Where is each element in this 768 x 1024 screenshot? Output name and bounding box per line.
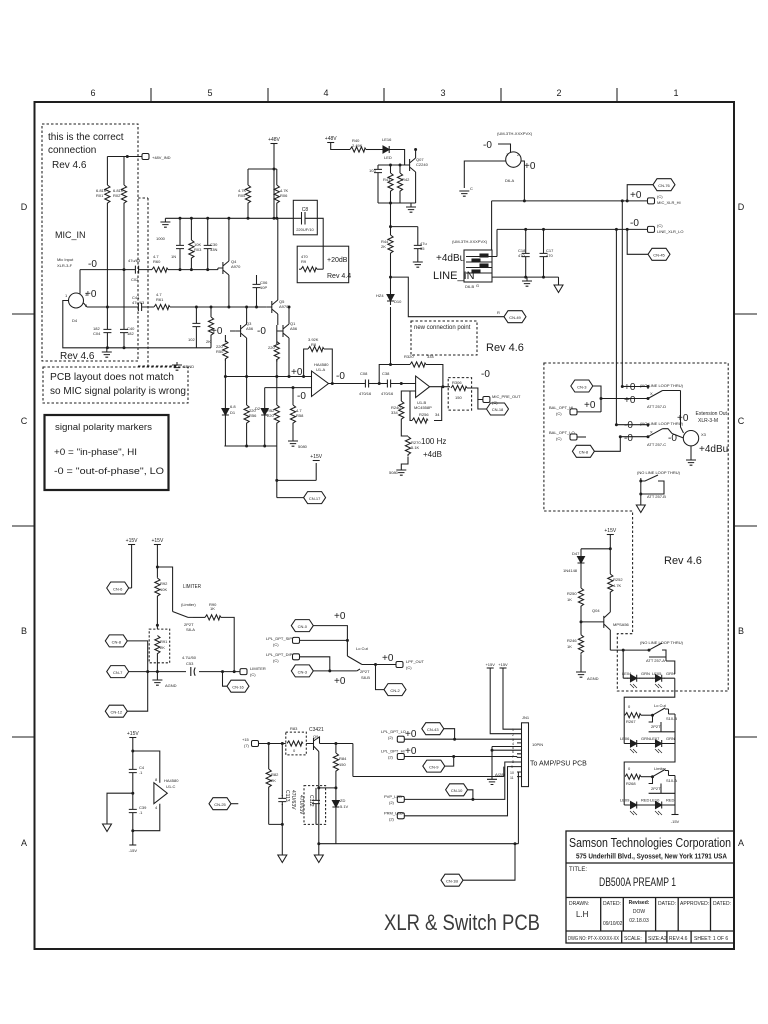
svg-text:AGND: AGND [587,676,599,681]
switch ATT 257-C [648,425,672,437]
svg-text:D6-B: D6-B [465,284,474,289]
svg-text:11: 11 [510,776,514,780]
row2 to row3 step [624,744,675,777]
resistor R252 [609,549,611,574]
svg-text:signal polarity markers: signal polarity markers [55,422,153,432]
svg-text:34: 34 [435,412,440,417]
svg-text:CN-1B: CN-1B [446,879,458,884]
svg-text:+4dBu: +4dBu [436,253,465,264]
svg-text:D10: D10 [394,299,402,304]
row1 to row2 step [624,678,675,715]
svg-text:1K: 1K [567,597,572,602]
capacitor C04 [103,326,111,336]
net tag XA-25 [209,798,231,810]
capacitor C02 [132,266,142,274]
svg-text:GRN: GRN [666,736,675,741]
connector LIM_OUT [396,662,403,668]
svg-text:X3: X3 [701,432,707,437]
svg-text:R41: R41 [383,177,391,182]
svg-text:CN-12: CN-12 [111,710,123,715]
svg-text:LPL_DPT_DIP: LPL_DPT_DIP [266,652,293,657]
svg-text:+0: +0 [334,611,346,622]
wire R02 column [123,157,125,348]
svg-text:R83: R83 [290,726,298,731]
output wire [362,664,396,666]
svg-text:-0: -0 [624,433,633,444]
svg-text:DWG NO: PT-X-XXXXX-XX: DWG NO: PT-X-XXXXX-XX [568,936,620,942]
input wire [259,743,312,745]
net tag XU-0 [446,784,468,796]
svg-text:182: 182 [127,331,134,336]
svg-text:+15V: +15V [485,662,495,667]
wire [372,383,384,385]
svg-text:A(28): A(28) [495,772,505,777]
svg-text:C2240: C2240 [416,162,429,167]
wire mic pin1 ground loop [63,301,211,348]
input rail to opamp + [224,376,311,378]
resistor R84 [335,744,337,788]
svg-text:09/10/02: 09/10/02 [603,921,623,927]
svg-text:CN-49: CN-49 [509,315,521,320]
wire +0 line [87,306,267,308]
capacitor C08 [362,380,372,388]
svg-text:CN-10: CN-10 [451,788,463,793]
svg-text:(C): (C) [273,658,279,663]
svg-text:CN-17: CN-17 [309,496,321,501]
svg-text:SHEET: 1 OF 6: SHEET: 1 OF 6 [694,936,728,942]
svg-text:6.8: 6.8 [230,404,236,409]
svg-text:2: 2 [556,88,561,98]
wire C8 to R9 [312,218,323,269]
svg-text:X: X [650,391,653,396]
svg-text:2P2T: 2P2T [651,786,661,791]
svg-text:R267: R267 [626,719,636,724]
svg-text:+0: +0 [624,395,636,406]
svg-text:LE10: LE10 [650,798,660,803]
svg-text:A56: A56 [246,326,254,331]
svg-text:-0: -0 [297,391,306,402]
svg-text:Rev 4.6: Rev 4.6 [664,555,702,567]
svg-text:R05: R05 [238,193,246,198]
svg-text:C112: C112 [308,795,314,807]
svg-text:334: 334 [427,354,434,359]
svg-text:10K: 10K [160,587,167,592]
inverting input chain [401,391,415,470]
svg-text:LINE_XLR_LO: LINE_XLR_LO [657,229,683,234]
svg-text:Q04: Q04 [592,608,600,613]
rail2 -0 LINE_XLR_LO [497,228,648,230]
diode LE16 LED [380,146,392,153]
svg-text:MC4558P: MC4558P [414,405,432,410]
svg-text:3: 3 [440,88,445,98]
svg-text:2K: 2K [206,339,211,344]
svg-text:XLR & Switch PCB: XLR & Switch PCB [384,910,540,935]
svg-text:S8-A: S8-A [186,627,195,632]
svg-text:-0: -0 [257,326,266,337]
svg-text:C38: C38 [382,371,390,376]
right tick D/C [734,313,757,315]
jack ground rail [492,276,559,278]
svg-text:CN-18: CN-18 [492,407,504,412]
svg-text:R9: R9 [301,259,307,264]
op-amp U1-C [154,783,167,804]
svg-text:MIC_PRE_OUT: MIC_PRE_OUT [492,394,521,399]
capacitor C17 [543,229,545,277]
svg-text:APPROVED:: APPROVED: [680,901,709,907]
long drop to extension +0 [621,201,623,387]
capacitor C40 [120,326,128,336]
resistor R06 [276,169,278,218]
svg-text:B: B [738,626,744,636]
svg-text:DOW: DOW [633,909,646,915]
earth loop-thru [636,505,645,513]
svg-text:470: 470 [546,253,553,258]
left tick C/B [12,525,35,527]
wire mic pin3 riser [79,270,81,294]
svg-text:33N: 33N [210,247,217,252]
svg-text:+0: +0 [624,382,636,393]
svg-text:CN-16: CN-16 [232,685,244,690]
svg-text:LIMITER: LIMITER [183,584,201,590]
LED row 3 [624,777,675,805]
svg-text:-0: -0 [630,218,639,229]
wire to MIC_PRE_OUT [467,388,483,400]
svg-text:-15V: -15V [671,819,680,824]
earth jack [558,277,560,285]
svg-text:ZD: ZD [340,798,345,803]
svg-text:5080: 5080 [389,470,399,475]
svg-text:R58: R58 [296,413,304,418]
resistor R90 [193,616,205,618]
svg-text:47U/63V: 47U/63V [290,790,296,810]
zener D30 [335,788,337,797]
svg-text:R50: R50 [216,349,224,354]
svg-text:5: 5 [207,88,212,98]
resistor R9 [299,268,301,270]
svg-text:R90: R90 [209,602,217,607]
capacitor C39 [129,806,137,816]
connector LIMITER out [240,669,247,675]
svg-text:D47: D47 [572,551,580,556]
svg-text:+0: +0 [291,367,303,378]
base resistors R41 R42 [378,164,405,166]
svg-text:(C): (C) [406,665,412,670]
svg-text:R256: R256 [419,412,429,417]
svg-text:LE16: LE16 [382,137,392,142]
svg-text:150: 150 [455,395,462,400]
svg-text:B: B [21,626,27,636]
feedback resistor R8 [304,349,333,384]
svg-text:LINE_IN: LINE_IN [433,270,475,282]
wire emitter to zener [319,787,336,789]
net tag CN-3 [571,380,593,392]
svg-text:R92: R92 [160,581,168,586]
svg-text:this is the correct: this is the correct [48,132,124,143]
svg-text:Lo Cut: Lo Cut [654,703,667,708]
net tag XN-3 [291,665,313,677]
svg-text:D: D [738,202,745,212]
net tag CN-8b [105,635,127,647]
svg-text:R: R [497,310,500,315]
ground XLR X3 [690,446,692,460]
transistor Q3 [236,324,247,338]
svg-text:R8: R8 [311,342,317,347]
svg-text:Mic Input: Mic Input [57,257,74,262]
svg-text:+48V: +48V [325,136,337,142]
resistor R58 [292,388,294,441]
ruler tick col 5/4 [267,88,269,102]
svg-text:+15V: +15V [604,528,616,534]
svg-text:A: A [738,838,744,848]
signal polarity markers box [45,415,169,490]
net tag XN-1B [478,400,487,410]
svg-text:+0: +0 [405,729,417,740]
diode D47 [580,549,582,553]
net tag CN-12 [105,705,127,717]
output wire [329,383,363,385]
svg-text:CN-7: CN-7 [113,670,123,675]
capacitor C18 [525,229,527,277]
resistor R250 [580,567,582,588]
svg-text:L.H: L.H [576,910,589,919]
svg-text:LE07: LE07 [650,736,660,741]
svg-text:(NO LINE LOOP THRU): (NO LINE LOOP THRU) [637,470,681,475]
right tick B/A [734,736,757,738]
net tag CN-16 [223,672,228,687]
svg-text:+15V: +15V [126,538,138,544]
svg-text:Rev 4.6: Rev 4.6 [60,351,95,362]
svg-text:To AMP/PSU PCB: To AMP/PSU PCB [530,761,587,768]
op-amp U1-A [312,371,329,397]
svg-text:(2): (2) [389,817,395,822]
svg-text:R06: R06 [280,193,288,198]
branch to switch [157,567,172,612]
main limiter wire [129,671,240,673]
svg-text:C: C [470,186,473,191]
svg-text:D2: D2 [255,406,261,411]
svg-text:150: 150 [339,762,346,767]
capacitor C46 [129,766,137,776]
power -15V [129,844,136,846]
svg-text:10PIN: 10PIN [532,742,543,747]
svg-text:(NO LINE LOOP THRU): (NO LINE LOOP THRU) [640,640,684,645]
wire R05 R06 branch [248,168,277,170]
ground mic [106,348,108,352]
svg-text:S10-B: S10-B [666,716,677,721]
tag riser CN-76 [627,185,653,201]
resistor R62 column [210,307,212,348]
svg-text:+0: +0 [382,653,394,664]
resistor R40 [350,147,366,152]
svg-text:CN-45: CN-45 [653,253,665,258]
svg-text:CN-3: CN-3 [577,385,587,390]
svg-text:SEND: SEND [183,364,194,369]
svg-text:Rev 4.4: Rev 4.4 [327,273,351,280]
ruler tick col 2/1 [616,88,618,102]
XLR extension out X3 [683,431,698,446]
svg-text:-15V: -15V [129,848,138,853]
title block [566,831,734,943]
capacitor C30 [207,218,209,269]
resistor R56 [244,405,249,425]
svg-text:S8-B: S8-B [361,675,370,680]
resistor R60 [152,267,168,272]
svg-text:R84: R84 [339,756,347,761]
svg-text:ATT 257-B: ATT 257-B [647,494,666,499]
svg-text:+0: +0 [334,676,346,687]
svg-text:LE09: LE09 [620,798,630,803]
capacitor C41 [377,165,379,203]
wire pin right to rail1 [521,161,524,201]
svg-text:U1-A: U1-A [316,367,325,372]
svg-text:CN-9: CN-9 [429,765,439,770]
svg-text:-0: -0 [624,420,633,431]
svg-text:RED: RED [641,798,650,803]
svg-text:2.49K: 2.49K [352,143,363,148]
wire [366,149,380,151]
capacitor C113 [281,744,283,856]
collector wire down [353,744,504,777]
svg-text:so MIC signal polarity is wron: so MIC signal polarity is wrong [50,386,186,397]
capacitor C42 [391,227,418,262]
svg-text:CN-8: CN-8 [112,639,122,644]
resistor R82 left [269,744,283,825]
svg-text:LE04: LE04 [622,671,632,676]
svg-text:470: 470 [518,253,525,258]
svg-text:Rev 4.6: Rev 4.6 [52,160,87,171]
input rail to opamp - [265,387,312,389]
bottom rail [224,445,276,447]
resistor R61 [154,304,170,309]
resistor R92 [155,578,160,598]
svg-text:575 Underhill Blvd., Syosset,: 575 Underhill Blvd., Syosset, New York 1… [576,854,727,861]
svg-text:Lo Cut: Lo Cut [356,646,369,651]
wire to Q07 [392,150,410,166]
svg-text:1: 1 [673,88,678,98]
capacitor C8 box [293,200,317,235]
svg-text:220UF/10: 220UF/10 [296,227,314,232]
wire pin ground [464,161,506,188]
svg-text:C53: C53 [186,661,194,666]
capacitor C05 [179,218,181,269]
svg-text:+48V: +48V [268,137,280,143]
ground jack [526,277,528,281]
svg-text:LE06: LE06 [620,736,630,741]
right tick C/B [734,525,757,527]
svg-text:MPSA56: MPSA56 [613,622,630,627]
svg-text:103: 103 [369,168,376,173]
svg-text:C04: C04 [93,331,101,336]
svg-text:R42: R42 [402,177,410,182]
svg-text:LIMITER: LIMITER [250,666,266,671]
svg-text:47u/63: 47u/63 [132,300,145,305]
svg-text:5.1V: 5.1V [340,804,349,809]
svg-text:TITLE:: TITLE: [569,867,587,873]
svg-text:2P2T: 2P2T [651,724,661,729]
svg-text:+0: +0 [630,190,642,201]
branch [581,548,610,550]
svg-text:CN-6: CN-6 [113,587,123,592]
svg-text:LPL_DPT_LO: LPL_DPT_LO [381,729,406,734]
svg-text:+48V_IND: +48V_IND [152,155,171,160]
svg-text:+0: +0 [677,413,689,424]
svg-text:C08: C08 [360,371,368,376]
connector +48V_IND [142,154,149,160]
svg-text:Revised:: Revised: [629,900,650,906]
svg-text:D: D [21,202,28,212]
svg-text:R306: R306 [452,380,462,385]
note box: PCB layout warning [43,367,188,403]
wire pin1 [498,144,511,153]
svg-text:(Limiter): (Limiter) [181,602,196,607]
svg-text:100 Hz: 100 Hz [421,437,446,446]
svg-text:4: 4 [323,88,328,98]
svg-text:DATED:: DATED: [658,901,676,907]
svg-text:47u/63: 47u/63 [128,258,141,263]
wire -0 line [80,268,218,270]
svg-text:ATT 257-C: ATT 257-C [647,442,666,447]
ground rail Q07 [378,203,416,207]
svg-text:DATED:: DATED: [603,901,621,907]
ruler tick col 6/5 [150,88,152,102]
transistor Q4 [218,261,229,275]
pin numbers JN1 [510,728,514,780]
note box step extension [138,198,177,366]
net tag CN-17 [304,492,326,504]
wire PVP_LED to pin [404,762,517,799]
svg-text:D4: D4 [72,318,78,323]
svg-text:1000: 1000 [156,236,166,241]
wire to +15 and tag [277,446,316,498]
svg-text:ATT 257-D: ATT 257-D [647,404,666,409]
svg-text:R250: R250 [567,591,577,596]
svg-text:(NO LINE LOOP THRU): (NO LINE LOOP THRU) [640,383,684,388]
svg-text:+20dB: +20dB [327,257,348,264]
svg-text:220: 220 [268,345,275,350]
svg-text:-0 = "out-of-phase", LO: -0 = "out-of-phase", LO [54,466,164,476]
ruler tick col 3/2 [500,88,502,102]
net tag CN-43 [422,723,444,735]
svg-text:02.18.03: 02.18.03 [629,918,649,924]
svg-text:+15V: +15V [310,454,322,460]
svg-text:DRAWN:: DRAWN: [569,901,589,907]
svg-text:(2): (2) [388,735,394,740]
svg-text:-0: -0 [481,369,490,380]
svg-text:G: G [476,283,479,288]
capacitor C45 column [195,307,197,348]
svg-text:CN-8: CN-8 [579,450,589,455]
resistor R267 [623,714,626,716]
svg-text:DB500A PREAMP 1: DB500A PREAMP 1 [599,875,676,889]
svg-text:470/16: 470/16 [359,391,372,396]
switch ATT 257-D [648,387,681,399]
transistor Q1 [278,324,289,338]
svg-text:HZ4: HZ4 [376,293,384,298]
net tag CN-6 [129,587,132,589]
svg-text:+0 = "in-phase", HI: +0 = "in-phase", HI [54,447,137,457]
svg-text:AGND: AGND [165,683,177,688]
bottom rail to connector [319,844,519,855]
svg-text:C: C [21,416,28,426]
zener vertical from PSU [390,307,392,365]
ground SEND stub [172,362,182,370]
zener D10 [387,291,394,305]
long drop to extension -0 [615,229,617,424]
connector MIC_PRE_OUT [483,397,490,403]
net tag CN-0 [291,620,313,632]
capacitor C38 [384,380,394,388]
node junction [126,155,129,158]
